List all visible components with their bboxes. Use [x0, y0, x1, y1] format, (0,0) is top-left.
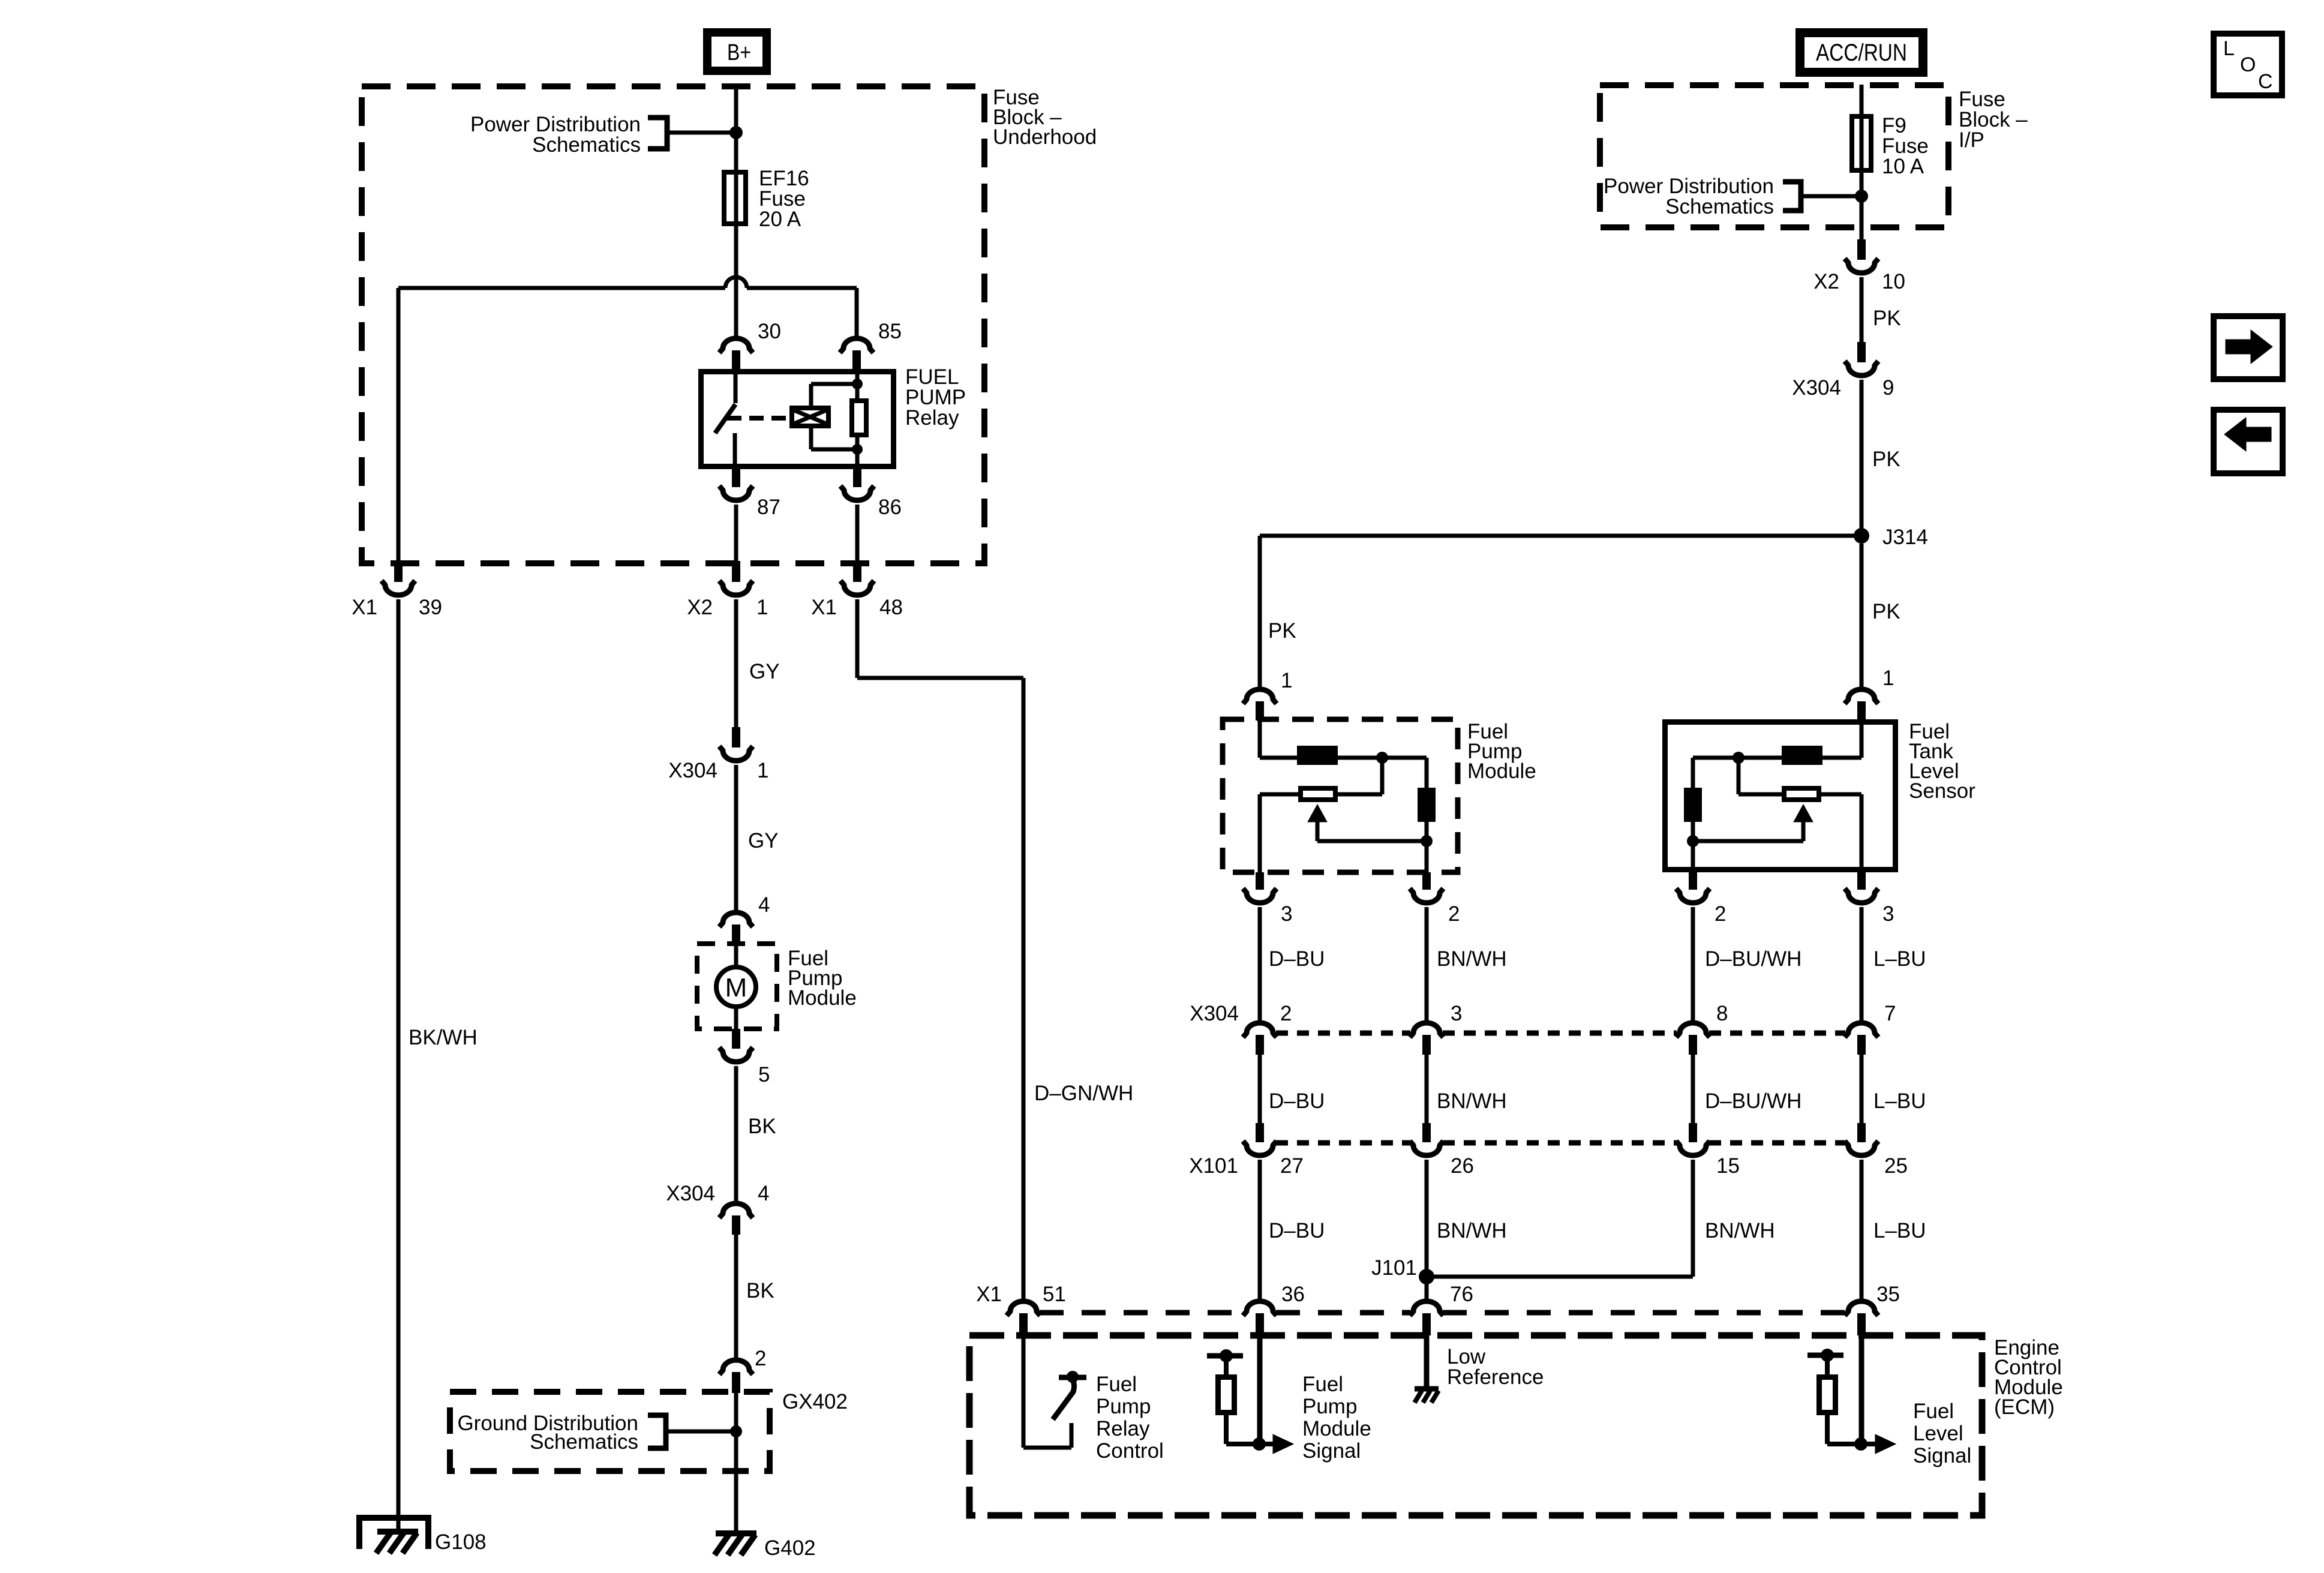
svg-text:10: 10 [1882, 270, 1905, 293]
relay switch blade [715, 404, 735, 433]
svg-text:I/P: I/P [1959, 128, 1984, 152]
svg-text:ACC/RUN: ACC/RUN [1816, 40, 1907, 66]
sensor internal wire resistor to node B [1691, 822, 1695, 841]
ECM low reference wire [1424, 1335, 1430, 1388]
relay pin 85 terminal [840, 338, 873, 353]
arrow legend box right [2214, 316, 2283, 379]
svg-text:Relay: Relay [1096, 1417, 1150, 1440]
svg-text:D–BU/WH: D–BU/WH [1705, 947, 1801, 971]
engine control module dashed box [969, 1335, 1982, 1515]
fuse block I/P dashed box [1600, 85, 1948, 227]
svg-text:Pump: Pump [1302, 1395, 1357, 1418]
wire X1-39 to G108 (BK/WH) [397, 599, 401, 1515]
svg-text:3: 3 [1281, 902, 1292, 926]
svg-text:85: 85 [878, 320, 902, 343]
svg-text:35: 35 [1876, 1283, 1900, 1306]
bracket power distribution schematics (right) [1783, 182, 1801, 211]
wire X101-15 to J101 (BN/WH) [1691, 1160, 1695, 1277]
wire hop over pin30 feed [725, 277, 747, 288]
svg-text:X304: X304 [1190, 1002, 1239, 1025]
sensor internal wire resistor to node [1693, 756, 1782, 760]
svg-text:BN/WH: BN/WH [1437, 1219, 1507, 1242]
svg-text:L–BU: L–BU [1873, 1089, 1926, 1113]
svg-text:Level: Level [1913, 1422, 1963, 1445]
pump internal feed wire [1258, 719, 1262, 758]
ECM fp module signal node [1253, 1437, 1266, 1451]
wire B+ to junction [734, 85, 738, 133]
svg-text:4: 4 [758, 1182, 769, 1205]
pump internal node A [1376, 752, 1388, 764]
wire X2-10 to X304-9 (PK) [1860, 277, 1864, 343]
ECM fuel level signal arrow [1861, 1442, 1876, 1446]
svg-text:1: 1 [1882, 667, 1894, 690]
svg-text:D–BU: D–BU [1269, 1219, 1325, 1242]
wire GX402 to G402 [734, 1471, 738, 1533]
bracket power distribution schematics (left) [648, 118, 667, 149]
svg-text:Module: Module [1467, 760, 1536, 783]
svg-text:X2: X2 [687, 596, 713, 619]
wire fuse EF16 to branch [734, 226, 738, 337]
wire branch right down to relay pin85 [855, 288, 859, 337]
svg-text:O: O [2240, 53, 2256, 76]
svg-text:3: 3 [1451, 1002, 1462, 1025]
wire X101-25 to ECM 35 (L–BU) [1860, 1160, 1864, 1300]
pump pin 3 terminal [1256, 872, 1264, 890]
fuel pump motor pin 5 terminal [732, 1029, 740, 1049]
ECM pin 35 terminal [1845, 1301, 1878, 1316]
svg-text:D–BU: D–BU [1269, 947, 1325, 971]
wire X101-26 to ECM 76 (BN/WH) [1425, 1160, 1429, 1300]
sensor level resistor [1684, 788, 1702, 822]
sensor internal wire pin3 to pot [1860, 794, 1864, 872]
svg-text:2: 2 [1280, 1002, 1292, 1025]
svg-text:B+: B+ [727, 40, 751, 65]
sensor internal wiper wire [1693, 839, 1803, 843]
fuel pump module pin 1 terminal [1243, 689, 1277, 704]
sensor internal node B [1687, 835, 1699, 847]
connector X304 mating line [1276, 1031, 1410, 1036]
svg-text:Relay: Relay [905, 406, 959, 430]
fuel tank level sensor pin 1 terminal [1845, 689, 1878, 704]
wire pin5 to X304-4 (BK) [734, 1066, 738, 1202]
svg-text:BK: BK [748, 1115, 776, 1138]
wire pin86 to X1-48 [855, 505, 860, 562]
wire J314 to sensor pin1 (PK) [1860, 544, 1864, 688]
svg-text:25: 25 [1884, 1154, 1908, 1178]
LOC legend box [2214, 34, 2282, 95]
wire X1-48 to ECM 51 (D–GN/WH) [855, 599, 860, 678]
svg-text:J101: J101 [1371, 1256, 1417, 1280]
wire branch left down to X1-39 [397, 288, 401, 562]
svg-text:Fuel: Fuel [1096, 1373, 1137, 1396]
pump wiper arrow [1316, 821, 1320, 841]
connector X1 pin 39 [394, 561, 403, 582]
relay pin 87 terminal [732, 469, 740, 487]
wire X304-9 to J314 (PK) [1860, 380, 1864, 536]
svg-text:Control: Control [1096, 1439, 1164, 1463]
ECM fuel level signal node [1854, 1437, 1867, 1451]
ECM pin 76 terminal [1410, 1301, 1443, 1316]
wire ACC/RUN to fuse F9 [1860, 85, 1864, 114]
wire X2-1 to X304-1 (GY) [734, 599, 738, 728]
pump resistor (sender feed) [1297, 746, 1338, 765]
sensor pin 3 terminal [1857, 872, 1866, 890]
wire sensor2 to X304-8 (D–BU/WH) [1691, 907, 1695, 1022]
svg-text:G402: G402 [764, 1536, 816, 1560]
relay coil feed wire 85-86 [855, 370, 860, 398]
relay switch common leg [734, 369, 738, 403]
svg-text:1: 1 [1281, 669, 1292, 692]
relay pin 86 terminal [853, 469, 861, 487]
svg-text:Underhood: Underhood [993, 125, 1097, 149]
svg-text:10 A: 10 A [1882, 155, 1924, 178]
svg-text:Schematics: Schematics [532, 133, 641, 157]
svg-text:J314: J314 [1882, 526, 1928, 549]
sensor internal wire pot to node A [1739, 792, 1782, 797]
node power distribution tap (right) [1855, 190, 1868, 203]
ECM fp module signal arrow [1260, 1442, 1274, 1446]
svg-text:Schematics: Schematics [1665, 195, 1774, 218]
svg-text:Signal: Signal [1302, 1439, 1361, 1463]
wire X304-8 to X101-15 (D–BU/WH) [1691, 1055, 1695, 1123]
ECM connector mating line [1040, 1310, 1243, 1316]
fuel tank level sensor box [1665, 722, 1896, 870]
svg-text:Schematics: Schematics [530, 1430, 638, 1454]
wire X304-3 to X101-26 (BN/WH) [1425, 1055, 1429, 1123]
svg-text:5: 5 [758, 1063, 770, 1086]
svg-text:3: 3 [1882, 902, 1894, 926]
svg-text:86: 86 [878, 496, 902, 519]
connector X101 pin 15 [1689, 1123, 1697, 1142]
svg-text:D–BU/WH: D–BU/WH [1705, 1089, 1801, 1113]
wire J314 branch to fuel pump module [1260, 534, 1861, 538]
ECM fp module signal pull-up bar [1207, 1353, 1243, 1359]
svg-text:48: 48 [879, 596, 903, 619]
svg-text:PK: PK [1872, 448, 1900, 471]
node J101 splice [1419, 1269, 1434, 1284]
pump internal wire node to motor resistor [1425, 758, 1429, 788]
pump internal wire motor resistor to node B [1425, 822, 1429, 841]
ECM pin 36 terminal [1243, 1301, 1277, 1316]
svg-text:L–BU: L–BU [1873, 947, 1926, 971]
sensor pin 2 terminal [1689, 872, 1697, 890]
connector X304 pin 8 [1676, 1023, 1710, 1037]
svg-text:L: L [2223, 37, 2235, 60]
ECM fuel level signal resistor wire [1825, 1415, 1830, 1444]
pump internal wire resistor to node [1338, 756, 1427, 760]
bracket ground distribution schematics [648, 1415, 666, 1448]
fuel pump module (motor) dashed box [697, 944, 777, 1029]
svg-text:Module: Module [788, 986, 857, 1010]
ECM relay control contact [1067, 1371, 1079, 1383]
relay switch lower contact [733, 433, 737, 469]
svg-text:9: 9 [1882, 376, 1894, 400]
connector X101 pin 27 [1256, 1123, 1264, 1142]
svg-text:L–BU: L–BU [1873, 1219, 1926, 1242]
ECM fp module signal resistor wire [1224, 1415, 1229, 1444]
connector X304 pin 1 [732, 727, 740, 748]
svg-text:X304: X304 [1792, 376, 1841, 400]
svg-text:Fuel: Fuel [1913, 1400, 1954, 1423]
ground G108 frame [359, 1518, 428, 1549]
connector X304 pin 2 [1243, 1023, 1277, 1037]
wire X101-27 to ECM 36 (D–BU) [1258, 1160, 1262, 1300]
sensor internal feed wire [1860, 719, 1864, 758]
svg-text:X101: X101 [1189, 1154, 1238, 1178]
ECM relay control switch blade [1053, 1381, 1074, 1419]
ECM fuel pump relay control wire [1022, 1335, 1026, 1448]
wire pin87 to X2-1 [734, 505, 738, 562]
svg-text:1: 1 [756, 596, 768, 619]
fuel pump module dashed box [1223, 719, 1458, 872]
svg-text:PK: PK [1268, 619, 1296, 643]
wire X304-2 to X101-27 (D–BU) [1258, 1055, 1262, 1123]
connector X304 pin 9 [1857, 342, 1866, 362]
svg-text:2: 2 [1715, 902, 1726, 926]
svg-text:30: 30 [758, 320, 781, 343]
svg-text:BK: BK [746, 1279, 774, 1302]
node GX402 splice [730, 1425, 742, 1437]
svg-text:PK: PK [1872, 600, 1900, 623]
relay coil top wire [809, 384, 813, 406]
ECM fp module signal resistor [1218, 1377, 1235, 1413]
svg-text:Fuel: Fuel [1302, 1373, 1343, 1396]
wire fuse F9 to X2-10 [1860, 173, 1864, 241]
svg-text:1: 1 [757, 759, 768, 782]
svg-text:BN/WH: BN/WH [1437, 947, 1507, 971]
ECM low reference ground [1415, 1386, 1439, 1392]
power symbol B+ box [707, 32, 767, 71]
svg-text:26: 26 [1451, 1154, 1474, 1178]
svg-text:X2: X2 [1813, 270, 1839, 293]
relay pin 30 terminal [719, 338, 753, 353]
relay coil box [792, 408, 828, 426]
sensor potentiometer [1784, 788, 1819, 800]
svg-text:D–BU: D–BU [1269, 1089, 1325, 1113]
fuse block underhood dashed box [362, 86, 984, 563]
svg-text:27: 27 [1280, 1154, 1304, 1178]
svg-text:36: 36 [1281, 1283, 1305, 1306]
svg-text:M: M [725, 973, 747, 1002]
relay coil bottom node [852, 444, 863, 455]
svg-text:GX402: GX402 [782, 1390, 848, 1413]
fuel pump motor M [734, 944, 738, 967]
relay coil top node [852, 379, 863, 389]
svg-text:(ECM): (ECM) [1994, 1395, 2055, 1419]
pump internal wiper wire [1317, 839, 1427, 843]
connector X304 pin 7 [1845, 1023, 1878, 1037]
arrow legend box left [2214, 410, 2283, 473]
svg-text:X304: X304 [668, 759, 717, 782]
relay coil bottom wire [809, 428, 813, 449]
ECM fuel level signal pull-up bar [1807, 1353, 1843, 1358]
node J314 splice [1854, 528, 1869, 544]
svg-text:Pump: Pump [1096, 1395, 1151, 1418]
ECM pin35 signal wire [1859, 1335, 1864, 1444]
svg-text:X304: X304 [666, 1182, 715, 1205]
svg-text:Signal: Signal [1913, 1444, 1971, 1467]
svg-text:Sensor: Sensor [1909, 779, 1975, 803]
relay FUEL PUMP Relay box [701, 372, 894, 467]
svg-text:D–GN/WH: D–GN/WH [1034, 1082, 1133, 1105]
svg-text:PK: PK [1873, 307, 1901, 330]
svg-text:51: 51 [1043, 1283, 1066, 1306]
svg-text:Module: Module [1302, 1417, 1371, 1440]
ECM pin 51 terminal [1007, 1301, 1040, 1316]
connector X2 pin 10 [1857, 239, 1866, 260]
ECM pin36 signal wire [1257, 1335, 1263, 1444]
pump motor resistor [1418, 788, 1436, 822]
svg-text:8: 8 [1716, 1002, 1728, 1025]
connector X2 pin 1 [732, 561, 740, 582]
wire pump2 to X304-3 (BN/WH) [1425, 907, 1429, 1022]
power symbol ACC/RUN box [1800, 33, 1923, 73]
ground G108 stub [397, 1518, 401, 1532]
svg-text:15: 15 [1716, 1154, 1740, 1178]
fuse EF16 [724, 172, 746, 224]
pump pin 2 terminal [1422, 872, 1431, 890]
svg-text:G108: G108 [435, 1530, 487, 1554]
svg-text:2: 2 [755, 1347, 766, 1370]
ground G402 rake [716, 1530, 756, 1536]
wire junction to fuse EF16 [734, 133, 738, 170]
connector X101 pin 25 [1857, 1123, 1866, 1142]
wire X304-1 to pump pin4 (GY) [734, 765, 738, 911]
fuel pump motor pin 4 terminal [719, 912, 753, 927]
ground splice pin 2 terminal [719, 1360, 753, 1374]
svg-text:BN/WH: BN/WH [1437, 1089, 1507, 1113]
svg-text:C: C [2258, 70, 2273, 93]
wire sensor3 to X304-7 (L–BU) [1860, 907, 1864, 1022]
svg-text:GY: GY [749, 660, 780, 683]
svg-text:4: 4 [758, 893, 770, 917]
svg-text:20 A: 20 A [759, 208, 801, 231]
svg-text:X1: X1 [811, 596, 837, 619]
connector X1 pin 48 [853, 561, 861, 582]
connector X101 pin 26 [1422, 1123, 1431, 1142]
sensor internal node A [1733, 752, 1744, 764]
ground G108 rake [377, 1529, 418, 1535]
node power distribution tap (left) [729, 126, 743, 139]
svg-text:39: 39 [419, 596, 442, 619]
svg-text:87: 87 [757, 496, 780, 519]
svg-text:Reference: Reference [1447, 1365, 1544, 1389]
sensor internal wire node B to pin 2 [1691, 841, 1695, 872]
svg-text:GY: GY [748, 829, 779, 852]
connector X101 mating line [1276, 1140, 1410, 1146]
wire branch horizontal [398, 286, 725, 290]
connector X304 pin 4 [719, 1203, 753, 1218]
connector X304 pin 3 [1410, 1023, 1443, 1037]
sensor internal wire node to level resistor [1691, 758, 1695, 788]
fuse F9 [1852, 116, 1871, 170]
pump internal wire pin3 to pot [1258, 794, 1262, 872]
wire pump3 to X304-2 (D–BU) [1258, 907, 1262, 1022]
sensor resistor (sender feed) [1782, 746, 1822, 765]
pump potentiometer [1301, 788, 1335, 800]
wire through GX402 [734, 1393, 738, 1471]
svg-text:X1: X1 [352, 596, 377, 619]
pump internal wire pot to node A [1338, 792, 1382, 797]
ECM fuel level signal resistor [1819, 1377, 1836, 1413]
relay resistor [852, 401, 866, 435]
wire X304-4 to GX402 pin2 (BK) [734, 1235, 738, 1359]
ground splice GX402 dashed box [450, 1392, 770, 1471]
svg-text:BN/WH: BN/WH [1705, 1219, 1775, 1242]
relay actuator dashed link [727, 416, 791, 421]
svg-text:X1: X1 [976, 1283, 1002, 1306]
pump internal node B [1421, 835, 1433, 847]
svg-text:7: 7 [1884, 1002, 1896, 1025]
pump internal wire node B to pin 2 [1425, 841, 1429, 872]
svg-text:BK/WH: BK/WH [409, 1026, 478, 1049]
wire X304-7 to X101-25 (L–BU) [1860, 1055, 1864, 1123]
svg-text:2: 2 [1448, 902, 1460, 926]
sensor wiper arrow [1801, 821, 1806, 841]
svg-text:76: 76 [1450, 1283, 1473, 1306]
